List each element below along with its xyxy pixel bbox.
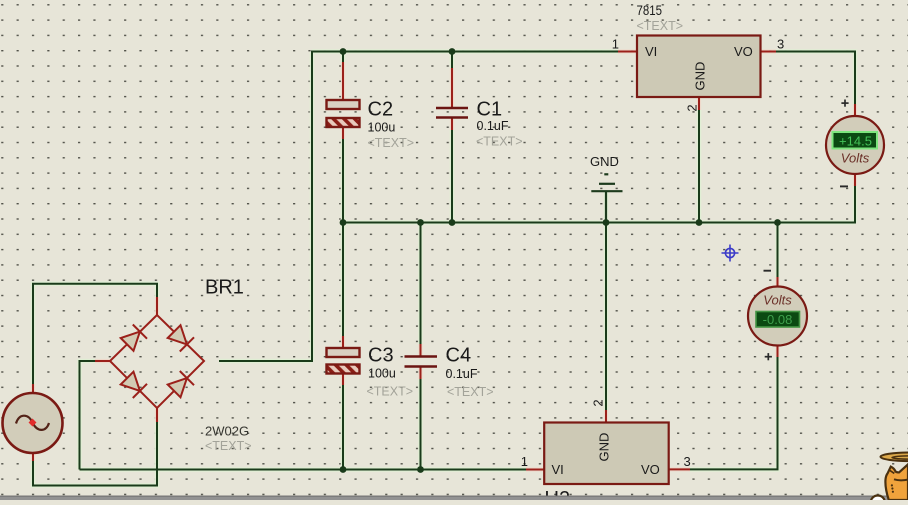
wire: red stub 7815 VO pin 3	[761, 51, 777, 53]
svg-text:VI: VI	[645, 44, 657, 59]
AC source V1	[3, 393, 63, 453]
svg-text:0.1uF: 0.1uF	[446, 367, 478, 381]
wire: 7815 GND pin 2 down to rail	[698, 110, 700, 223]
wire: U2 pin2 red stub	[605, 410, 607, 423]
svg-text:GND: GND	[590, 154, 619, 169]
svg-text:2W02G: 2W02G	[205, 424, 249, 439]
svg-text:1: 1	[521, 454, 528, 469]
wire: C4 column green segments	[420, 223, 422, 470]
wire: C1 column green segments	[451, 52, 453, 223]
wire: source top red stubs	[33, 297, 157, 393]
wire: red stub to 7815 VI pin 1	[618, 51, 637, 53]
wire: + rail from bridge right corner up and along top to 7815 VI	[219, 52, 618, 362]
svg-text:2: 2	[685, 104, 700, 111]
svg-text:VI: VI	[552, 462, 564, 477]
wire: 7815 pin2 red stub	[698, 97, 700, 110]
svg-text:3: 3	[684, 454, 691, 469]
node gnd rail / ground symbol	[603, 219, 610, 226]
regulator U2 body	[544, 423, 669, 485]
wire: bridge left red stub	[95, 360, 110, 362]
wire halos (pale glow under wires)	[33, 52, 855, 486]
diode D-topright (points to right corner)	[168, 325, 194, 351]
voltmeter U4 plus mark	[765, 353, 772, 360]
regulator U1 7815 body	[637, 36, 761, 98]
voltmeter U4 minus mark	[764, 270, 772, 272]
svg-text:C3: C3	[368, 345, 394, 367]
svg-text:<TEXT>: <TEXT>	[447, 385, 494, 399]
svg-text:<TEXT>: <TEXT>	[368, 136, 415, 150]
node gnd rail / 7815 pin2	[696, 219, 703, 226]
svg-text:+14.5: +14.5	[839, 134, 872, 149]
wire: red stub U2 VI pin 1	[526, 469, 544, 471]
bridge rectifier BR1	[110, 315, 204, 408]
node gnd rail / C4	[417, 219, 424, 226]
svg-text:Volts: Volts	[841, 151, 870, 166]
wire: source bottom to bridge bottom	[33, 422, 157, 486]
svg-text:C2: C2	[368, 99, 394, 121]
node bottom rail / C3	[340, 466, 347, 473]
node bottom rail / C4	[417, 466, 424, 473]
cat sticker head	[885, 464, 908, 500]
wire: C1 red leads	[451, 68, 453, 130]
svg-text:100u: 100u	[368, 367, 396, 381]
svg-text:<TEXT>: <TEXT>	[205, 439, 252, 453]
node gnd rail / C1	[449, 219, 456, 226]
svg-text:-0.08: -0.08	[763, 312, 793, 327]
svg-text:Volts: Volts	[763, 293, 792, 308]
wire: source top to bridge top	[33, 284, 157, 384]
svg-text:7815: 7815	[637, 2, 663, 18]
diode D-bottomleft (points to bottom corner)	[121, 372, 147, 398]
ground symbol	[591, 174, 622, 222]
wire: voltmeter2 red stubs	[777, 277, 779, 357]
voltmeter U3 plus mark	[841, 100, 848, 107]
capacitor C3 (electrolytic)	[327, 348, 360, 374]
svg-text:2: 2	[590, 399, 605, 406]
node top rail / C1	[449, 48, 456, 55]
wire: C3 column green segments	[342, 223, 344, 470]
wire: C2 column green segments	[342, 52, 344, 223]
wire: voltmeter1 red stubs	[854, 104, 856, 186]
diode D-topleft (points to top corner)	[121, 325, 147, 351]
wire: U2 VO to voltmeter2 bottom	[690, 357, 778, 469]
wire: source bottom red stubs	[33, 408, 157, 461]
wire: bridge left corner down to bottom rail	[80, 361, 96, 470]
wire: 7815 VO to voltmeter U3 top	[776, 52, 855, 105]
svg-text:BR1: BR1	[205, 277, 244, 299]
capacitor C4	[405, 357, 438, 367]
wire: GND mid rail y=222 with corner up to voltmeter bottom	[343, 186, 855, 223]
svg-text:GND: GND	[597, 433, 612, 462]
capacitor C2 (electrolytic)	[327, 100, 360, 127]
diode D-bottomright (points to right corner)	[168, 371, 194, 397]
wire: U2 GND pin 2 up to rail	[605, 223, 607, 411]
origin marker (blue crosshair)	[722, 245, 739, 262]
wire: U2 VO red stub	[669, 468, 691, 470]
capacitor C1	[436, 108, 468, 118]
svg-text:VO: VO	[641, 462, 660, 477]
node top rail / C2	[340, 48, 347, 55]
svg-text:VO: VO	[734, 44, 753, 59]
svg-text:0.1uF: 0.1uF	[477, 119, 509, 133]
svg-text:<TEXT>: <TEXT>	[367, 385, 414, 399]
voltmeter U3 (+14.5)	[826, 116, 884, 174]
svg-text:1: 1	[612, 37, 619, 52]
svg-text:C1: C1	[477, 99, 503, 121]
voltmeter U4 (-0.08)	[748, 287, 807, 346]
wire: bottom rail to U2 VI	[80, 469, 527, 471]
wire: C2 red leads	[342, 62, 344, 139]
node gnd rail / voltmeter U4	[774, 219, 781, 226]
svg-text:<TEXT>: <TEXT>	[637, 19, 684, 33]
cat sticker halo	[881, 453, 908, 462]
svg-text:100u: 100u	[368, 121, 396, 135]
cat sticker paw	[871, 496, 885, 505]
svg-text:GND: GND	[693, 62, 708, 91]
svg-text:C4: C4	[446, 345, 472, 367]
voltmeter U3 minus mark	[840, 185, 848, 187]
svg-text:<TEXT>: <TEXT>	[476, 135, 523, 149]
wire: voltmeter2 top to GND rail	[777, 223, 779, 278]
wire: C4 red leads	[420, 344, 422, 379]
wire: C3 red leads	[342, 336, 344, 385]
svg-text:3: 3	[777, 37, 784, 52]
bottom gray bar	[0, 496, 908, 500]
node gnd rail / C2-C3	[340, 219, 347, 226]
